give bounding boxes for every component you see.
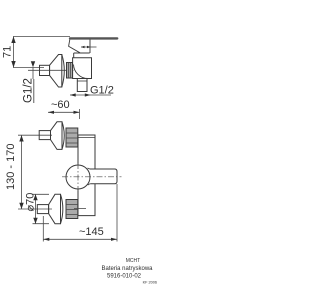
node: ~60 arrow right [74,111,80,114]
svg-text:G1/2: G1/2 [23,78,35,103]
ball horizontal centerline (dash-dot) [62,176,122,178]
lever hub right edge [89,40,91,54]
cartridge ball: front view circle [66,165,90,189]
wire: dimension 71 extension line top (lever top plane) [13,36,70,38]
wire: phi70 extension bottom [33,223,50,225]
mixer arm: front view horizontal body [90,169,117,184]
cartridge cap left edge [73,53,75,58]
wire: dimension ~60 line [48,111,80,113]
wire: ~145 extension left [42,216,44,242]
node: 130-170 arrow down [19,203,23,209]
node: ~60 arrow left [48,111,54,114]
escutcheon bell cap arc: front view upper [62,122,64,150]
ball vertical centerline [77,163,79,191]
pipe stub: front view lower connector square [37,205,48,214]
body cap seam front view [78,137,95,139]
node: outlet dim arrow right [85,93,91,96]
wire: dimension ~145 line [43,238,117,240]
pipe stub: front view upper connector square [39,131,50,140]
lever hub diagonal [69,40,80,53]
svg-text:MCHT: MCHT [126,258,140,264]
wire: G1/2 left underline [33,79,35,103]
arm to ball fillet top [88,168,91,169]
node: phi70 arrow down [33,218,37,224]
lever hub small dimension line [81,46,97,48]
node: outlet dim arrow left [70,93,76,96]
lever hub small dimension arrow left [81,46,85,49]
body spout inner arc [74,65,89,79]
wire: dimension 71 vertical dimension line [13,37,15,68]
body column: front view [78,135,95,216]
wire: phi70 extension top [33,193,50,195]
node: ~145 arrow right [111,238,117,241]
wire: G1/2 left leader line [32,67,34,79]
svg-text:~60: ~60 [51,99,70,111]
body: top view outline [73,58,92,79]
svg-text:71: 71 [2,46,14,58]
svg-text:~145: ~145 [79,226,104,238]
union nut: front view upper (knurled) [66,128,78,147]
node: dimension 71 arrow up [11,37,15,44]
escutcheon bell: top view [50,55,62,88]
union nut: front view lower (knurled) [66,200,78,219]
svg-text:G1/2: G1/2 [90,85,114,97]
node: ~145 arrow left [43,238,49,241]
cartridge cap: top view body top [74,52,90,54]
wire: ~60 extension line right [79,109,81,119]
wire: lower inlet axis into body [74,208,86,210]
escutcheon bell cap arc: top view [62,55,65,88]
wire: inlet centerline / extension line, top view [13,67,44,69]
label: G1/2 left leader arrow [31,61,35,67]
svg-text:5916-010-02: 5916-010-02 [107,274,142,280]
union nut knurl lines [68,63,70,79]
svg-text:Bateria natryskowa: Bateria natryskowa [101,266,153,272]
shower hose outlet: top view [77,79,87,92]
escutcheon bell: front view lower [49,194,61,223]
wire: outlet thread dimension line with G1/2 underline [70,94,111,96]
wire: inlet axis centerline top view [28,69,73,71]
svg-text:130 - 170: 130 - 170 [5,144,17,190]
wire: dimension 130-170 vertical line [21,135,23,209]
union nut knurl lines upper [66,132,78,134]
escutcheon bell: front view upper [51,122,63,150]
union nut: top view (knurled) [67,63,73,79]
lever hub small dimension arrow right [87,46,91,49]
wire: upper inlet centerline, front view [18,134,52,136]
wire: dimension phi70 vertical line [35,194,37,223]
lever handle bar: top view [70,37,117,39]
outlet shoulder line [77,80,87,82]
node: 130-170 arrow up [19,135,23,141]
arm to ball fillet bottom [88,184,91,185]
wire: lower inlet centerline, front view [18,208,52,210]
svg-text:⌀70: ⌀70 [25,193,37,212]
node: dimension 71 arrow down [11,61,15,68]
svg-text:KF 2006: KF 2006 [143,281,157,285]
pipe stub: top view wall connector square [40,65,50,75]
wire: ~145 extension right (from arm end) [116,184,118,242]
node: phi70 arrow up [33,194,37,200]
escutcheon bell cap arc: front view lower [61,194,63,223]
union nut knurl lines lower [66,204,78,206]
